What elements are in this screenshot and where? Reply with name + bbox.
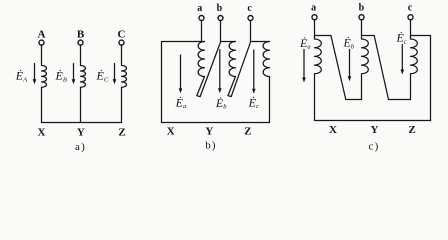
svg-text:X: X [167,126,175,138]
arrow E_A [34,64,36,80]
svg-text:B: B [77,29,85,41]
svg-text:ĖB: ĖB [55,69,67,84]
winding 2 coil and lead [362,36,369,100]
svg-text:Ėa: Ėa [299,36,311,51]
winding 1 coil and wire to bus [315,36,322,121]
svg-text:Ėb: Ėb [215,96,227,111]
svg-text:ĖC: ĖC [96,69,109,84]
wire b [221,21,236,42]
svg-text:b): b) [205,140,217,152]
winding A: wire, coil, wire [42,45,47,122]
svg-text:Y: Y [371,124,379,136]
svg-text:Y: Y [77,127,85,139]
left edge wire [162,42,205,123]
svg-text:C: C [118,29,126,41]
wire c and right edge [411,20,431,121]
svg-text:A: A [38,29,46,41]
terminal c circle [248,16,253,21]
terminal b circle [359,15,364,20]
svg-text:Ėa: Ėa [175,95,187,110]
svg-text:c: c [408,3,413,14]
terminal a circle [199,16,204,21]
svg-text:Z: Z [244,126,251,138]
wire b [362,20,375,36]
svg-text:X: X [38,127,46,139]
svg-text:a: a [197,3,202,14]
svg-text:Z: Z [408,124,415,136]
svg-text:a): a) [75,141,86,153]
wire c [251,21,270,42]
arrow E_B [73,64,75,80]
V2 diagonal: terminal b to bottom of winding 3 [374,36,410,100]
bottom bus b [162,122,270,124]
svg-text:c: c [247,3,252,14]
winding 2 coil, V bottom, diagonal to c [228,42,251,97]
arrow E_a [180,55,182,89]
svg-text:Y: Y [205,126,213,138]
terminal A circle [39,40,44,45]
svg-text:Ėb: Ėb [343,36,355,51]
arrow E_a [303,50,305,79]
svg-text:c): c) [369,141,380,153]
terminal B circle [78,40,83,45]
svg-text:X: X [329,124,337,136]
arrow E_b [219,50,221,89]
svg-text:Z: Z [118,127,125,139]
svg-text:ĖA: ĖA [15,69,27,84]
bottom bus c [315,120,431,122]
arrow E_C [114,64,116,80]
terminal c circle [408,15,413,20]
terminal a circle [312,15,317,20]
arrow E_c [401,45,403,71]
winding B: wire, coil, wire [81,45,86,122]
wire a [201,21,203,42]
svg-text:b: b [217,3,223,14]
terminal C circle [119,40,124,45]
svg-text:Ėc: Ėc [396,31,407,46]
wire a [315,20,331,36]
winding 1 coil, V bottom, diagonal to b [197,42,221,97]
terminal b circle [218,16,223,21]
arrow E_b [349,50,351,77]
bottom bus a [42,122,122,124]
svg-text:b: b [359,3,365,14]
V1 diagonal: terminal a to bottom of winding 2 [331,36,362,100]
winding 3 coil and lead [411,36,418,100]
svg-text:Ėc: Ėc [248,95,259,110]
arrow E_c [253,50,255,89]
winding 3 coil and wire to bus [263,42,269,123]
svg-text:a: a [311,3,316,14]
winding C: wire, coil, wire [122,45,127,122]
